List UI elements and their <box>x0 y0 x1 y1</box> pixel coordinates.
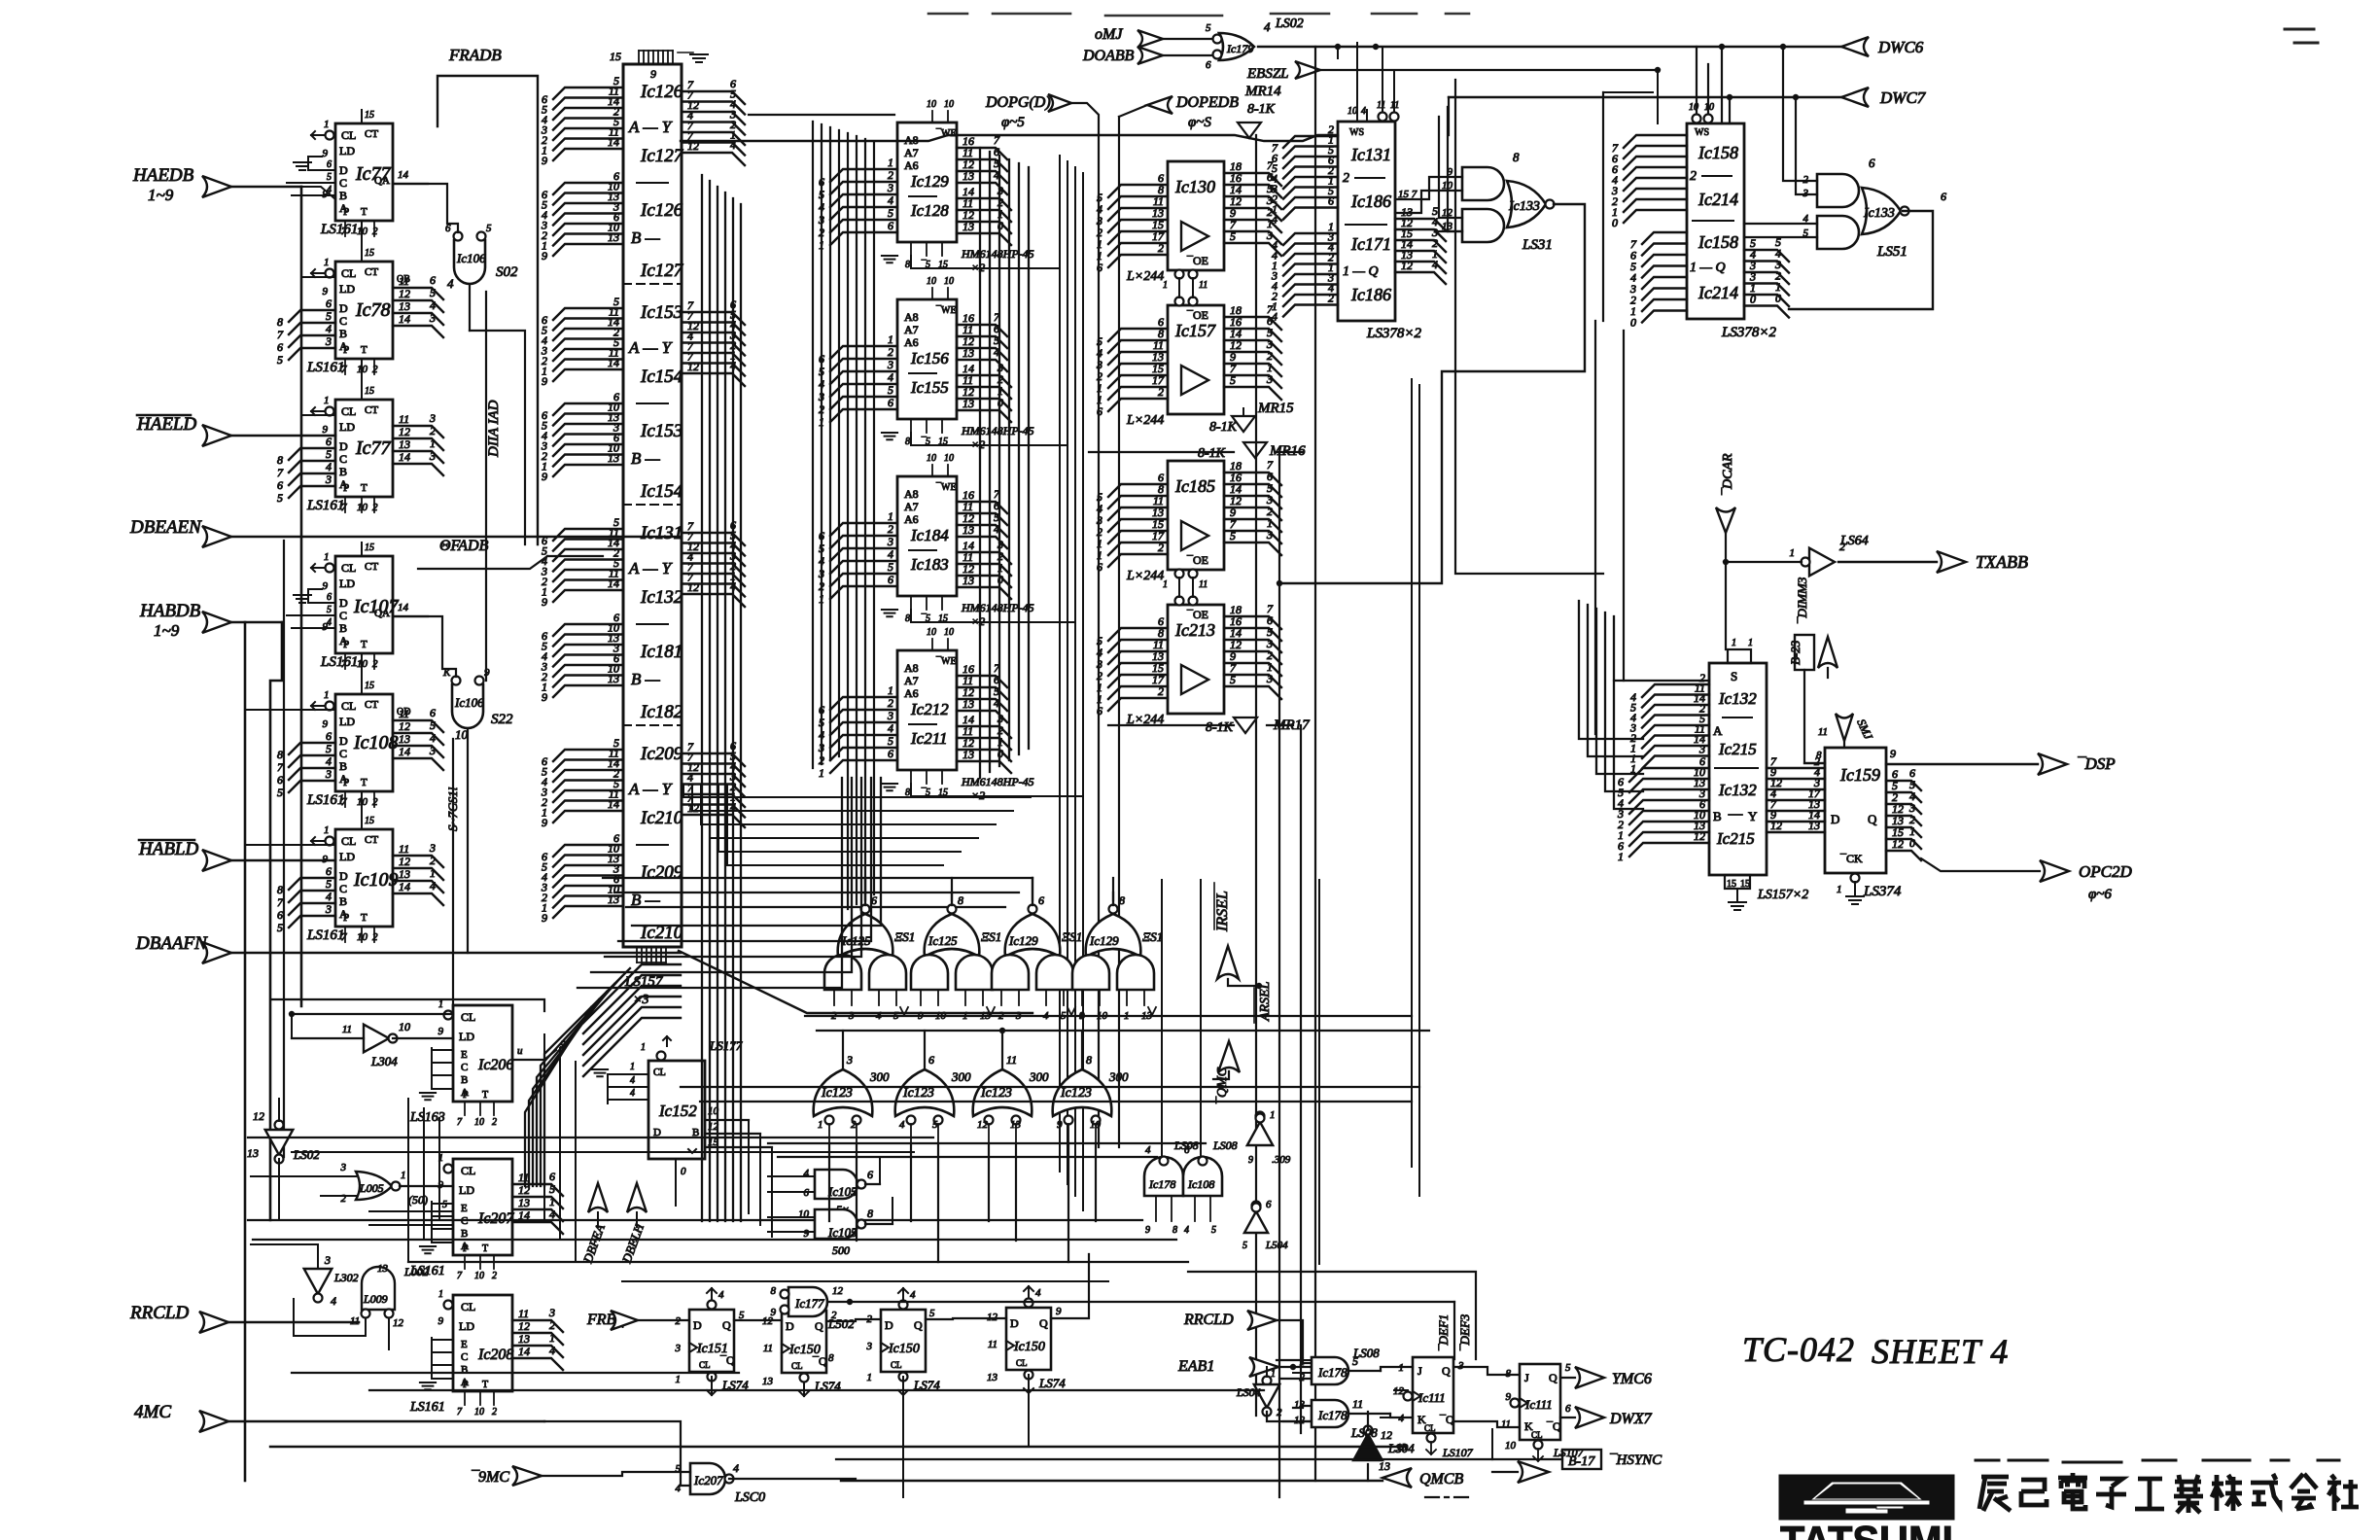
svg-text:2: 2 <box>819 402 824 416</box>
svg-text:8: 8 <box>958 893 963 907</box>
svg-text:3: 3 <box>325 767 332 781</box>
svg-text:LS08: LS08 <box>1350 1425 1378 1440</box>
svg-text:B —: B — <box>631 449 661 468</box>
svg-text:L×244: L×244 <box>1126 569 1164 583</box>
svg-text:Ic207: Ic207 <box>477 1210 514 1227</box>
svg-text:5: 5 <box>819 542 824 555</box>
wire outputs down right <box>1594 321 1596 734</box>
svg-text:LS02: LS02 <box>293 1147 320 1162</box>
svg-text:Ic159: Ic159 <box>1839 765 1880 785</box>
svg-text:P: P <box>343 639 349 650</box>
wire <box>1337 47 1339 58</box>
svg-text:4: 4 <box>819 554 824 568</box>
svg-text:13: 13 <box>1379 1459 1390 1473</box>
svg-text:12: 12 <box>1892 837 1904 851</box>
wire bus fanout below <box>683 786 1031 797</box>
svg-text:1: 1 <box>1618 850 1624 863</box>
svg-text:J: J <box>1524 1371 1529 1384</box>
svg-text:Ic126: Ic126 <box>640 82 683 102</box>
gate cluster Ic129 ZS1 <box>1086 914 1141 957</box>
svg-text:Q: Q <box>722 1318 731 1332</box>
wire Ic132 B inputs <box>1629 768 1709 782</box>
wire mux B inputs <box>553 624 623 636</box>
svg-text:Ic129: Ic129 <box>910 172 949 191</box>
svg-text:CL: CL <box>341 561 356 575</box>
svg-text:13: 13 <box>987 1372 998 1383</box>
node QMCB <box>841 1480 1382 1482</box>
svg-text:4: 4 <box>804 1168 810 1179</box>
svg-text:1: 1 <box>1300 1356 1306 1368</box>
svg-text:13: 13 <box>1808 819 1820 832</box>
inverter LS04 eab <box>1263 1377 1272 1385</box>
node QMC arrow <box>1218 1041 1240 1072</box>
svg-text:C: C <box>461 1062 468 1073</box>
svg-text:6: 6 <box>277 773 283 787</box>
svg-text:B: B <box>339 465 347 478</box>
svg-text:3: 3 <box>325 334 332 348</box>
svg-text:14: 14 <box>518 1345 530 1358</box>
svg-text:1: 1 <box>819 766 824 780</box>
svg-text:5: 5 <box>888 560 893 574</box>
svg-text:A8: A8 <box>904 661 919 675</box>
svg-text:11: 11 <box>1199 280 1207 291</box>
svg-text:3: 3 <box>818 741 824 754</box>
svg-text:6: 6 <box>327 159 332 170</box>
svg-text:12: 12 <box>832 1285 844 1297</box>
wire HAEDB to Ic77 <box>301 187 335 199</box>
svg-text:u: u <box>517 1045 523 1057</box>
svg-text:13: 13 <box>608 892 619 906</box>
svg-text:10: 10 <box>455 727 469 742</box>
inverter LS02b <box>304 1269 332 1294</box>
svg-text:13: 13 <box>399 437 410 451</box>
svg-text:12: 12 <box>399 287 410 300</box>
svg-text:CT: CT <box>365 128 378 140</box>
wire Ic131 out pins <box>1395 219 1446 230</box>
svg-text:6: 6 <box>819 175 824 189</box>
svg-text:15: 15 <box>610 50 621 63</box>
svg-text:φ~5: φ~5 <box>1001 115 1025 130</box>
svg-text:4: 4 <box>1145 1144 1151 1156</box>
gate Ic105b <box>815 1209 857 1239</box>
svg-text:1: 1 <box>819 238 824 252</box>
svg-text:12: 12 <box>1401 259 1413 272</box>
counter Ic79 <box>335 400 393 497</box>
svg-text:5: 5 <box>486 223 492 234</box>
svg-text:TC-042: TC-042 <box>1742 1330 1855 1369</box>
svg-text:¯OE: ¯OE <box>1186 553 1208 567</box>
svg-text:S22: S22 <box>491 712 513 727</box>
svg-text:CL: CL <box>1424 1423 1436 1433</box>
svg-text:LS04: LS04 <box>1387 1441 1415 1455</box>
svg-text:3: 3 <box>324 1253 331 1267</box>
svg-text:D: D <box>339 869 348 883</box>
svg-text:5: 5 <box>929 1308 935 1319</box>
svg-text:D: D <box>693 1318 702 1332</box>
wire loop2 <box>1657 70 1659 123</box>
wire Ic132 A inputs <box>1642 684 1709 697</box>
svg-text:B: B <box>339 621 347 635</box>
svg-text:¯Q: ¯Q <box>719 1353 735 1367</box>
svg-text:¯QMC: ¯QMC <box>1215 1067 1230 1104</box>
svg-text:4MC: 4MC <box>134 1402 171 1422</box>
svg-text:1: 1 <box>324 395 330 406</box>
svg-text:10: 10 <box>944 627 954 638</box>
svg-text:3: 3 <box>340 1162 347 1173</box>
wire Ic184 data outputs lower <box>957 552 1011 564</box>
svg-text:1: 1 <box>1837 884 1842 895</box>
svg-text:DWC6: DWC6 <box>1877 38 1924 56</box>
svg-text:8-1K: 8-1K <box>1198 446 1226 461</box>
inverter LS64 <box>1809 548 1835 577</box>
svg-text:L504: L504 <box>1265 1240 1288 1251</box>
svg-text:T: T <box>482 1090 488 1101</box>
svg-text:14: 14 <box>399 312 410 326</box>
svg-text:ARSEL: ARSEL <box>1258 981 1273 1022</box>
svg-text:Ic152: Ic152 <box>658 1102 697 1120</box>
wire CE route <box>911 784 1083 796</box>
svg-text:2: 2 <box>372 502 378 513</box>
svg-text:P: P <box>343 344 349 356</box>
wire bus lower horizontals <box>248 1219 1142 1221</box>
svg-text:D: D <box>339 163 348 177</box>
svg-text:15: 15 <box>365 386 374 397</box>
svg-text:10: 10 <box>927 276 936 287</box>
wire Ic207 outputs <box>512 1184 563 1196</box>
svg-text:1: 1 <box>888 332 893 346</box>
svg-text:1: 1 <box>676 1374 682 1385</box>
svg-text:CT: CT <box>365 834 378 846</box>
svg-text:¯DEF3: ¯DEF3 <box>1457 1313 1472 1351</box>
svg-text:DBEAEN: DBEAEN <box>129 517 202 538</box>
svg-text:T: T <box>361 777 367 788</box>
svg-text:B: B <box>1713 809 1722 823</box>
svg-text:LS161: LS161 <box>306 927 344 943</box>
svg-text:2: 2 <box>888 168 893 182</box>
wire mux Y outputs <box>682 533 745 545</box>
svg-text:B —: B — <box>631 670 661 688</box>
svg-text:DOPEDB: DOPEDB <box>1175 94 1239 111</box>
gate Ic106 second <box>442 667 513 953</box>
inverter LS04 filled <box>1353 1434 1382 1460</box>
flip-flop Ic151b <box>782 1311 826 1373</box>
label scan artifact dashes top right <box>2285 29 2318 43</box>
svg-text:14: 14 <box>398 602 409 613</box>
svg-text:P: P <box>463 1090 469 1101</box>
svg-text:Q: Q <box>1442 1364 1451 1378</box>
inverter pair up <box>1256 1112 1265 1121</box>
svg-text:6: 6 <box>326 729 332 743</box>
svg-text:9: 9 <box>323 148 329 159</box>
svg-text:CL: CL <box>699 1360 711 1370</box>
node DBAAFN input <box>202 942 231 963</box>
gate cluster Ic125 ZS1 <box>925 914 980 957</box>
svg-text:1: 1 <box>324 689 330 701</box>
svg-text:1: 1 <box>324 824 330 836</box>
wire Ic206 out <box>512 1050 556 1060</box>
svg-text:13: 13 <box>608 230 619 244</box>
svg-text:C: C <box>339 176 347 190</box>
svg-text:8: 8 <box>1119 893 1125 907</box>
svg-text:A6: A6 <box>904 158 919 172</box>
svg-text:B: B <box>339 327 347 340</box>
svg-text:1: 1 <box>1748 638 1753 648</box>
svg-text:4: 4 <box>630 1088 635 1099</box>
svg-text:DOPG(D): DOPG(D) <box>985 94 1051 111</box>
node RRCLD input <box>199 1312 228 1333</box>
wire to right gates <box>1783 47 1817 181</box>
svg-text:CL: CL <box>891 1360 902 1370</box>
svg-text:12: 12 <box>399 719 410 733</box>
wire dff clocks <box>711 1377 713 1390</box>
svg-text:LS51: LS51 <box>1876 244 1907 260</box>
logo company name kanji <box>1981 1475 2009 1480</box>
RAM Ic156/Ic155 <box>897 299 957 419</box>
svg-text:5: 5 <box>549 1182 555 1196</box>
svg-text:C: C <box>339 747 347 760</box>
svg-text:11: 11 <box>342 1024 352 1035</box>
svg-text:CL: CL <box>1531 1430 1543 1440</box>
svg-text:Ic109: Ic109 <box>353 869 399 891</box>
svg-text:13: 13 <box>518 1196 530 1209</box>
svg-text:DBAAFN: DBAAFN <box>135 933 208 954</box>
register Ic159 <box>1825 748 1886 873</box>
gate Ic123 xor <box>814 1069 873 1116</box>
svg-text:1: 1 <box>324 119 330 130</box>
wire dff links <box>734 1319 782 1321</box>
wire ls157 diagonal <box>679 951 1032 1013</box>
svg-text:4: 4 <box>430 879 436 892</box>
counter Ic206 <box>453 1005 512 1102</box>
svg-text:Ic206: Ic206 <box>477 1057 513 1073</box>
svg-text:9: 9 <box>1890 747 1896 760</box>
svg-text:¯DIMM3: ¯DIMM3 <box>1795 577 1809 624</box>
svg-text:3: 3 <box>818 213 824 227</box>
svg-text:1~9: 1~9 <box>154 621 180 640</box>
svg-text:2: 2 <box>1158 241 1164 255</box>
svg-text:SHEET 4: SHEET 4 <box>1872 1332 2009 1371</box>
svg-text:Ic105: Ic105 <box>827 1225 857 1240</box>
svg-text:14: 14 <box>399 450 410 464</box>
svg-text:Ic107: Ic107 <box>353 596 400 617</box>
svg-text:6: 6 <box>430 273 436 287</box>
gate Ic106 <box>445 223 525 544</box>
svg-text:4: 4 <box>1272 213 1277 227</box>
svg-text:8: 8 <box>771 1285 777 1297</box>
svg-text:7: 7 <box>277 760 284 774</box>
svg-text:oMJ: oMJ <box>1095 26 1123 43</box>
svg-text:RRCLD: RRCLD <box>129 1303 189 1323</box>
svg-text:300: 300 <box>1029 1069 1049 1084</box>
inverter LHC LS04 <box>275 1121 284 1130</box>
svg-text:1 — Q: 1 — Q <box>1343 264 1379 279</box>
svg-text:5: 5 <box>1230 229 1236 243</box>
svg-text:B: B <box>339 759 347 773</box>
svg-text:2: 2 <box>1277 1407 1282 1418</box>
svg-text:Ic129: Ic129 <box>1089 933 1119 948</box>
svg-text:6: 6 <box>327 592 332 603</box>
svg-text:12: 12 <box>1381 1428 1392 1442</box>
svg-text:2: 2 <box>1690 169 1697 184</box>
svg-text:13: 13 <box>962 574 974 587</box>
svg-text:9: 9 <box>323 580 329 592</box>
wire mux A inputs <box>553 87 623 99</box>
node SMJ clock <box>1836 714 1853 741</box>
svg-text:E: E <box>461 1339 468 1350</box>
svg-text:11: 11 <box>1377 100 1385 111</box>
svg-text:2: 2 <box>430 424 436 437</box>
wire Ic130 inputs <box>1108 185 1168 197</box>
svg-text:C: C <box>339 314 347 328</box>
node arrow below <box>1518 1461 1549 1483</box>
svg-text:300: 300 <box>951 1069 971 1084</box>
wire nested fanout below RAM <box>632 778 881 926</box>
svg-text:6: 6 <box>1869 156 1875 170</box>
svg-text:DWC7: DWC7 <box>1879 88 1927 107</box>
svg-text:11: 11 <box>1501 1418 1511 1430</box>
svg-text:Ic111: Ic111 <box>1524 1397 1553 1412</box>
svg-text:4: 4 <box>718 1289 724 1301</box>
svg-text:6: 6 <box>1184 1144 1190 1156</box>
wire <box>272 999 544 1011</box>
wire bottom bus2 <box>245 1480 841 1482</box>
svg-text:3: 3 <box>429 411 436 425</box>
svg-text:2: 2 <box>341 1193 347 1205</box>
svg-text:9: 9 <box>542 690 547 704</box>
wire Ic212 data outputs lower <box>957 726 1011 738</box>
svg-text:5: 5 <box>277 786 283 799</box>
svg-text:Ic106: Ic106 <box>456 251 486 265</box>
wire Ic132 outputs <box>1767 767 1825 769</box>
node HABDB input <box>202 612 231 633</box>
svg-text:0: 0 <box>681 1166 686 1177</box>
svg-text:4: 4 <box>326 322 332 335</box>
svg-text:S: S <box>1731 669 1737 683</box>
svg-text:5: 5 <box>888 734 893 748</box>
svg-text:11: 11 <box>1199 579 1207 590</box>
svg-text:10: 10 <box>927 627 936 638</box>
svg-text:Ic131: Ic131 <box>1350 145 1391 164</box>
svg-text:4: 4 <box>1272 310 1277 324</box>
wire buffer link bubbles 2 <box>1175 570 1184 578</box>
svg-text:9: 9 <box>804 1228 810 1240</box>
svg-text:Ic212: Ic212 <box>910 700 949 718</box>
svg-text:T: T <box>361 639 367 650</box>
wire Ic130 outputs <box>1224 173 1281 186</box>
svg-text:DOABB: DOABB <box>1082 48 1135 64</box>
svg-text:1: 1 <box>438 999 443 1010</box>
wire Ic152 clk <box>675 1176 677 1194</box>
svg-text:6: 6 <box>888 219 893 232</box>
svg-text:LS374: LS374 <box>1863 884 1902 899</box>
svg-text:φ~S: φ~S <box>1188 115 1211 130</box>
svg-text:12: 12 <box>977 1119 989 1131</box>
wire Ic156 data outputs lower <box>957 375 1011 387</box>
svg-text:J: J <box>1417 1364 1422 1378</box>
counter Ic108 <box>335 694 393 791</box>
svg-text:4: 4 <box>888 547 893 561</box>
svg-text:LS107: LS107 <box>1442 1446 1474 1459</box>
gate cluster Ic129 ZS1 <box>1005 914 1061 957</box>
svg-text:E: E <box>461 1203 468 1214</box>
wire <box>270 622 282 1220</box>
svg-text:LD: LD <box>339 577 355 590</box>
svg-text:Ic150: Ic150 <box>888 1342 920 1356</box>
wire carry <box>361 653 363 681</box>
svg-text:12: 12 <box>518 1319 530 1333</box>
wire Ic131 to gates <box>1395 177 1462 203</box>
svg-text:6: 6 <box>326 297 332 310</box>
RAM Ic212/Ic211 <box>897 650 957 770</box>
svg-text:8: 8 <box>867 1207 873 1220</box>
svg-text:500: 500 <box>832 1243 850 1257</box>
svg-text:15: 15 <box>365 816 374 826</box>
svg-text:4: 4 <box>819 377 824 391</box>
svg-text:¯OE: ¯OE <box>1186 308 1208 322</box>
svg-text:2: 2 <box>888 345 893 359</box>
svg-text:2: 2 <box>1343 171 1349 186</box>
svg-text:13: 13 <box>518 1332 530 1346</box>
gate Ic133 LS31 <box>1462 167 1504 200</box>
svg-text:13: 13 <box>962 169 974 183</box>
svg-text:LS378×2: LS378×2 <box>1366 326 1421 341</box>
gate Ic123 xor <box>895 1069 955 1116</box>
svg-text:C: C <box>339 609 347 622</box>
svg-text:C: C <box>339 882 347 895</box>
svg-text:Ic178: Ic178 <box>1317 1365 1347 1380</box>
svg-text:9: 9 <box>542 470 547 483</box>
svg-text:4: 4 <box>1432 258 1438 271</box>
svg-text:LS161: LS161 <box>306 792 344 808</box>
svg-text:300: 300 <box>1108 1069 1129 1084</box>
svg-text:B: B <box>461 1364 468 1376</box>
svg-text:¯WE: ¯WE <box>935 482 957 493</box>
svg-text:8: 8 <box>277 883 283 896</box>
svg-text:T: T <box>482 1243 488 1254</box>
svg-text:5: 5 <box>1242 1241 1247 1251</box>
svg-text:14: 14 <box>608 797 619 811</box>
svg-text:9: 9 <box>542 816 547 829</box>
svg-text:0: 0 <box>1775 292 1781 305</box>
svg-text:6: 6 <box>326 435 332 448</box>
svg-text:Q: Q <box>815 1319 823 1333</box>
svg-text:ΘFADB: ΘFADB <box>439 538 489 554</box>
wire address bus verticals <box>812 122 814 768</box>
svg-text:6: 6 <box>1328 194 1334 208</box>
svg-text:3: 3 <box>887 181 893 194</box>
svg-text:CL: CL <box>341 834 356 848</box>
register block Ic131/Ic186/Ic171/Ic186 <box>1338 122 1395 321</box>
svg-text:2: 2 <box>372 364 378 375</box>
svg-text:LS161: LS161 <box>306 498 344 513</box>
svg-text:P: P <box>463 1243 469 1254</box>
wire mux B inputs <box>553 845 623 857</box>
svg-text:Ic186: Ic186 <box>1350 192 1391 211</box>
svg-text:Ic133: Ic133 <box>1508 199 1540 214</box>
svg-text:L×244: L×244 <box>1126 269 1164 284</box>
svg-text:A — Y: A — Y <box>628 338 673 357</box>
svg-text:¯Q: ¯Q <box>812 1354 827 1368</box>
svg-text:11: 11 <box>1006 1053 1017 1067</box>
wire Ic129 data outputs upper <box>957 148 1007 159</box>
svg-text:14: 14 <box>399 745 410 758</box>
svg-text:14: 14 <box>399 880 410 893</box>
svg-text:6: 6 <box>867 1168 873 1181</box>
wire outputs Ic108 <box>393 720 443 732</box>
svg-text:4: 4 <box>888 721 893 735</box>
svg-text:φ~6: φ~6 <box>2088 887 2112 902</box>
svg-text:8: 8 <box>1513 150 1520 164</box>
